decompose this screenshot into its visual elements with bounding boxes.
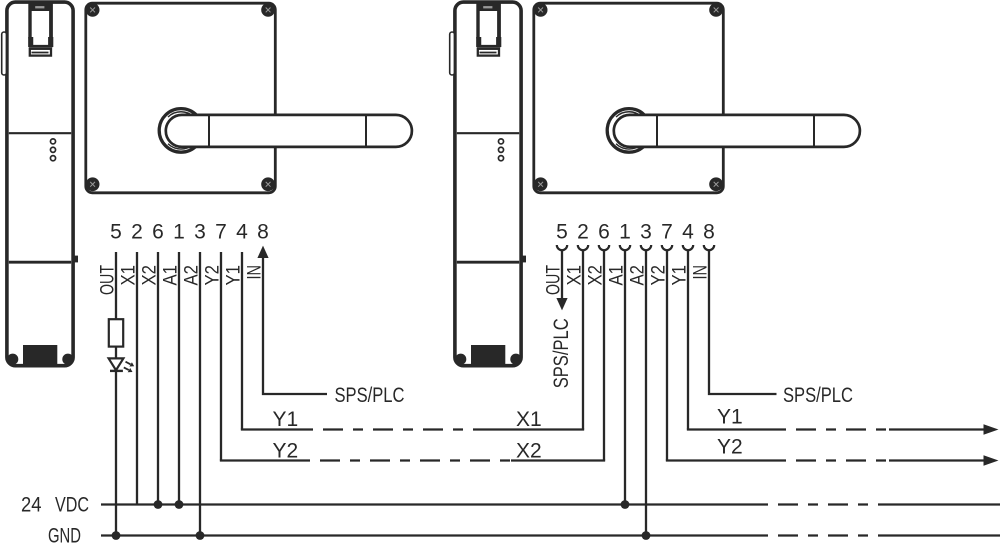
device2 terminal cup OUT [557,245,567,250]
module M1 indicator LED 2 [50,147,55,152]
svg-text:7: 7 [215,221,227,244]
wire device1 OUT upper [115,252,117,319]
svg-text:5: 5 [110,221,122,244]
svg-text:24: 24 [21,494,42,517]
module M2 latch foot inner line [480,52,497,54]
door unit P1 lever joint line right [365,115,367,146]
GND rail solid segment [101,534,768,536]
wire device1 A2 to GND [199,252,201,536]
module M1 latch foot inner line [32,52,49,54]
door unit P1 lever joint line left [208,115,210,146]
door unit P1 escutcheon plate outline [86,3,275,193]
door unit P1 rosette inner ring top arc [168,112,194,117]
junction device1 X2 to 24VDC [154,500,163,509]
24VDC rail solid right segment [880,503,1000,505]
svg-text:3: 3 [640,221,652,244]
Y1 bus dashed segment [313,428,480,430]
svg-text:Y1: Y1 [273,408,299,431]
device2 Y1 out dashed segment [786,428,889,430]
device2 terminal cup Y2 [662,245,672,250]
door unit P1 screw bottom-right [261,177,275,191]
svg-text:8: 8 [257,221,269,244]
junction device1 A1 to 24VDC [175,500,184,509]
module M2 right side notch [521,256,526,263]
module M1 latch right stub [48,37,53,47]
device2 Y2 out dashed segment [786,459,889,461]
wire device1 X2 to 24VDC [157,252,159,505]
Y2 bus dashed segment [310,459,511,461]
arrow into device1 IN [257,246,268,258]
svg-text:Y2: Y2 [273,440,299,463]
svg-text:X2: X2 [516,440,542,463]
Y2 bus solid left segment [220,459,310,461]
module M1 latch foot box [30,49,51,56]
door unit P1 screw bottom-left [86,177,100,191]
device2 Y2 out solid segment [666,459,786,461]
svg-text:5: 5 [556,221,568,244]
Y1 bus solid left segment [241,428,313,430]
module M1 latch left stub [28,37,33,47]
door unit P2 rosette inner ring top arc [616,112,642,117]
svg-text:3: 3 [194,221,206,244]
wire device2 A1 to 24VDC [624,250,626,504]
wire device2 A2 to GND [645,250,647,535]
junction device1 OUT to GND [112,531,121,540]
wire device2 Y2 drop [666,250,668,460]
wire device2 IN drop and turn to SPS/PLC [709,250,777,394]
door unit P2 screw top-right [709,3,723,17]
svg-text:GND: GND [48,525,81,547]
svg-text:Y1: Y1 [717,406,743,429]
svg-text:Y2: Y2 [717,436,743,459]
module M2 lower divider [457,261,519,264]
LED symbol on device1 OUT [109,358,135,372]
door unit P2 screw bottom-right [709,177,723,191]
module M1 upper divider [9,132,71,134]
junction device2 A1 to 24VDC [621,500,630,509]
svg-text:8: 8 [703,221,715,244]
module M2 right foot [510,354,521,365]
module M2 latch right rail [497,4,501,39]
arrow out of device2 OUT [556,298,567,310]
device2 Y1 out solid to arrow [889,428,985,430]
door unit P2 screw top-left [534,3,548,17]
device2 Y1 out arrow head [984,424,999,435]
device2 terminal cup A2 [641,245,651,250]
door unit P1 screw top-left [86,3,100,17]
svg-text:SPS/PLC: SPS/PLC [335,384,405,407]
module M1 right foot [62,354,73,365]
module M2 bottom terminal block [471,345,505,366]
module M2 left foot [455,354,466,365]
module M1 bottom terminal block [23,345,57,366]
door unit P2 screw bottom-left [534,177,548,191]
device2 Y2 out solid to arrow [889,459,985,461]
svg-text:4: 4 [682,221,694,244]
junction device1 A2 to GND [196,531,205,540]
module M1 left mounting tab [2,32,7,75]
door unit P1 handle lever [166,115,412,147]
Y1 bus solid right segment [480,428,584,430]
module M2 latch left rail [476,4,479,39]
module M2 upper divider [457,132,519,134]
svg-text:7: 7 [661,221,673,244]
GND rail dashed segment [768,534,880,536]
module M1 latch left rail [28,4,31,39]
svg-text:2: 2 [131,221,143,244]
wire device2 X2 drop to Y2 bus [603,250,605,460]
module M1 right side notch [73,256,78,263]
module M1 left foot [7,354,18,365]
svg-text:6: 6 [152,221,164,244]
svg-text:1: 1 [619,221,631,244]
Y2 bus solid right segment [511,459,605,461]
svg-text:SPS/PLC: SPS/PLC [550,318,573,388]
door unit P2 rosette inner ring bottom arc [616,144,642,149]
wire device1 IN drop and turn to SPS/PLC [263,255,327,394]
wire device2 Y1 drop [687,250,689,429]
svg-text:4: 4 [236,221,248,244]
GND rail solid right segment [880,534,1000,536]
module M1 housing outline [7,2,73,366]
door unit P1 screw top-right [261,3,275,17]
module M1 top connector black cap [31,3,51,11]
module M2 left mounting tab [450,32,455,75]
wire device1 OUT resistor-to-LED [115,347,117,359]
device2 terminal cup A1 [620,245,630,250]
resistor on device1 OUT [109,319,123,346]
module M1 connector cap slot [35,6,44,8]
device2 Y1 out solid segment [687,428,786,430]
module M1 latch crossbar [29,45,53,48]
door unit P1 rosette outer ring [159,109,203,153]
device2 terminal cup X1 [578,245,588,250]
wire device1 X1 to 24VDC [136,252,138,505]
module M1 indicator LED 3 [50,156,55,161]
module M2 indicator LED 2 [498,147,503,152]
device2 Y2 out arrow head [984,455,999,466]
module M2 latch left stub [476,37,481,47]
svg-text:X1: X1 [516,408,542,431]
module M2 top connector black cap [479,3,499,11]
wire device1 A1 to 24VDC [178,252,180,505]
door unit P2 lever joint line left [656,115,658,146]
door unit P2 escutcheon plate outline [534,3,724,193]
24VDC rail dashed segment [768,503,880,505]
wire device1 Y2 drop [220,252,222,461]
svg-text:VDC: VDC [55,494,89,517]
module M2 housing outline [455,2,521,366]
wire device1 OUT lower [115,372,117,536]
module M2 latch right stub [496,37,501,47]
door unit P2 rosette outer ring [607,109,651,153]
module M1 lower divider [9,261,71,264]
wire device2 OUT drop [561,250,563,299]
module M2 indicator LED 3 [498,156,503,161]
module M2 connector cap slot [483,6,492,8]
junction device2 A2 to GND [642,531,651,540]
device2 terminal cup IN [704,245,714,250]
wire device1 Y1 drop [241,252,243,430]
module M1 latch right rail [49,4,53,39]
module M2 latch crossbar [477,45,501,48]
device2 terminal cup Y1 [683,245,693,250]
module M1 indicator LED 1 [50,139,55,144]
svg-text:SPS/PLC: SPS/PLC [783,384,853,407]
door unit P2 handle lever [614,115,860,147]
svg-text:6: 6 [598,221,610,244]
24VDC rail solid segment [101,503,768,505]
module M2 indicator LED 1 [498,139,503,144]
device2 terminal cup X2 [599,245,609,250]
svg-text:2: 2 [577,221,589,244]
door unit P1 rosette inner ring bottom arc [168,144,194,149]
door unit P2 lever joint line right [813,115,815,146]
svg-text:1: 1 [173,221,185,244]
wire device2 X1 drop to Y1 bus [582,250,584,429]
module M2 latch foot box [478,49,499,56]
